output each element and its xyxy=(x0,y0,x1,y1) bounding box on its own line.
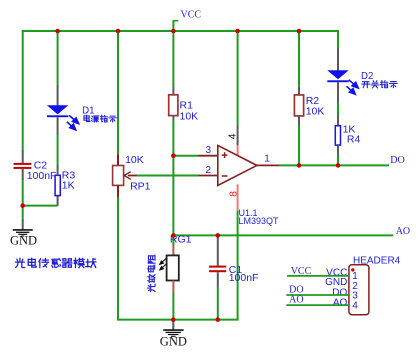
photoresistor RG1 xyxy=(172,246,174,256)
svg-text:GND: GND xyxy=(160,334,187,348)
op-amp minus xyxy=(222,175,228,177)
wire junction down to RG1 xyxy=(172,156,174,246)
junction AO wire / RG1 xyxy=(171,233,176,238)
svg-text:3: 3 xyxy=(206,145,212,156)
header pin1 dot xyxy=(351,268,354,271)
junction VCC rail / pin4 xyxy=(235,29,240,34)
capacitor C2 xyxy=(22,150,24,163)
svg-text:DO: DO xyxy=(390,155,404,166)
junction VCC rail / R1 xyxy=(171,29,176,34)
junction AO wire / C1 xyxy=(216,233,221,238)
svg-text:4: 4 xyxy=(352,300,358,311)
RG1 light arrows xyxy=(160,258,167,270)
svg-text:1: 1 xyxy=(264,154,270,165)
resistor R3 xyxy=(57,196,59,206)
D2 light arrows xyxy=(347,80,359,95)
junction bottom rail / GND xyxy=(171,317,176,322)
svg-text:100nF: 100nF xyxy=(27,170,57,182)
wire pin8 down xyxy=(237,211,239,320)
svg-text:GND: GND xyxy=(10,233,37,247)
VCC power stub xyxy=(172,21,174,31)
svg-text:10K: 10K xyxy=(180,111,199,123)
pin 4 lead xyxy=(237,30,239,126)
junction VCC rail / D1 xyxy=(55,29,60,34)
op-amp plus xyxy=(222,154,228,156)
ground GND bottom xyxy=(172,320,174,330)
svg-text:GND: GND xyxy=(325,277,347,288)
pin 3 lead xyxy=(198,155,218,157)
pin 2 lead xyxy=(198,175,218,177)
wire header AO xyxy=(286,304,349,306)
junction VCC rail / RP1 xyxy=(116,29,121,34)
svg-text:4: 4 xyxy=(226,133,238,139)
junction DO wire / R2 xyxy=(297,163,302,168)
pin 1 output lead xyxy=(257,164,280,166)
D1 light arrows xyxy=(67,115,79,129)
wire pin3 xyxy=(173,155,198,157)
svg-text:1K: 1K xyxy=(62,180,75,192)
svg-text:100nF: 100nF xyxy=(229,272,259,284)
ground GND left xyxy=(22,220,24,230)
wire DO output xyxy=(279,164,389,166)
junction bottom rail / C1 xyxy=(216,317,221,322)
wire top VCC rail xyxy=(23,30,338,32)
svg-text:VCC: VCC xyxy=(181,10,202,21)
capacitor C1 xyxy=(217,235,219,265)
D2 label 开关指示 xyxy=(362,82,370,88)
svg-text:D1: D1 xyxy=(82,106,94,117)
wire RP1 column xyxy=(117,30,119,155)
wire header DO xyxy=(286,294,349,296)
D1 label 电源指示 xyxy=(84,115,90,122)
svg-text:10K: 10K xyxy=(125,154,144,166)
potentiometer RP1 xyxy=(117,155,119,166)
svg-text:AO: AO xyxy=(289,294,303,305)
svg-text:AO: AO xyxy=(333,297,348,308)
junction DO wire / R4 xyxy=(336,163,341,168)
wire AO xyxy=(173,234,393,236)
svg-text:8: 8 xyxy=(227,191,239,197)
LED D1 xyxy=(57,30,59,86)
svg-text:RP1: RP1 xyxy=(130,181,151,193)
svg-text:2: 2 xyxy=(206,165,212,176)
svg-text:VCC: VCC xyxy=(291,266,312,277)
svg-text:R4: R4 xyxy=(347,134,361,146)
RG1 label 光敏电阻 vertical xyxy=(148,255,155,263)
svg-text:LM393QT: LM393QT xyxy=(239,216,280,226)
wire left column xyxy=(22,30,24,151)
junction R1/RG1/pin3 node xyxy=(171,153,176,158)
svg-text:D2: D2 xyxy=(361,71,373,82)
junction VCC rail / R2 xyxy=(297,29,302,34)
svg-text:AO: AO xyxy=(396,226,410,237)
svg-text:10K: 10K xyxy=(306,106,325,118)
op-amp U1 LM393QT xyxy=(218,145,257,185)
wire bottom rail xyxy=(118,319,239,321)
wire header VCC xyxy=(287,275,349,277)
resistor R2 xyxy=(298,30,300,88)
node junction left GND xyxy=(22,206,24,221)
RP1 wiper arrow xyxy=(128,175,137,177)
wire to R3 xyxy=(23,205,58,207)
wire RP1 wiper to pin2 xyxy=(137,175,199,177)
module label 光电传感器模块 xyxy=(15,258,24,267)
pin 8 lead xyxy=(237,184,239,211)
junction left GND node xyxy=(20,203,25,208)
resistor R1 xyxy=(172,30,174,88)
resistor R4 xyxy=(337,116,339,126)
LED D2 xyxy=(337,30,339,49)
